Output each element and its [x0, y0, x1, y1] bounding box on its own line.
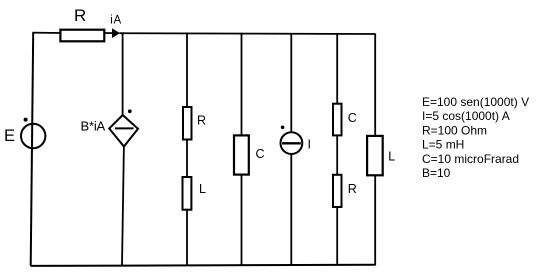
wire R-L branch top	[186, 33, 188, 108]
wire top-left segment	[33, 32, 61, 34]
inductor L2	[367, 136, 383, 175]
svg-text:L: L	[388, 150, 395, 164]
svg-text:I=5 cos(1000t) A: I=5 cos(1000t) A	[422, 109, 510, 123]
wire I branch bottom	[290, 154, 292, 265]
svg-text:R: R	[197, 114, 206, 128]
current arrow iA	[112, 28, 120, 38]
svg-text:R=100 Ohm: R=100 Ohm	[422, 123, 487, 137]
wire C2 to R3	[336, 135, 338, 176]
svg-text:E=100 sen(1000t) V: E=100 sen(1000t) V	[422, 95, 529, 109]
wire R-L branch bottom	[186, 210, 188, 266]
resistor R2	[183, 107, 192, 140]
svg-text:R: R	[348, 182, 357, 196]
svg-text:E: E	[4, 127, 15, 145]
svg-text:L: L	[199, 182, 206, 196]
wire bottom	[31, 265, 376, 266]
wire R2 to L1	[186, 140, 188, 178]
svg-text:R: R	[74, 6, 86, 25]
wire C-R branch top	[336, 33, 338, 104]
wire B*iA branch top	[122, 33, 124, 116]
wire left vertical	[31, 32, 34, 265]
wire top main segment	[120, 32, 376, 35]
inductor L1	[183, 177, 192, 210]
wire C branch top	[241, 33, 243, 136]
svg-text:I: I	[308, 138, 311, 152]
svg-text:C: C	[256, 147, 265, 161]
capacitor C1	[234, 135, 249, 174]
wire right vertical top	[374, 34, 376, 137]
resistor R1 (top)	[60, 30, 104, 42]
svg-text:L=5 mH: L=5 mH	[422, 138, 464, 152]
svg-text:iA: iA	[110, 15, 121, 27]
wire B*iA branch bottom	[122, 146, 124, 266]
current source I	[281, 126, 303, 155]
wire right vertical bottom	[374, 175, 376, 265]
svg-text:C=10 microFrarad: C=10 microFrarad	[422, 152, 519, 166]
svg-text:C: C	[348, 111, 357, 125]
voltage source E	[21, 118, 45, 149]
wire I branch top	[290, 33, 292, 133]
wire resistor to arrow	[105, 32, 113, 34]
svg-text:B=10: B=10	[422, 166, 451, 180]
dependent source B*iA	[109, 109, 138, 146]
wire C branch bottom	[241, 175, 243, 266]
resistor R3	[333, 175, 342, 207]
svg-text:B*iA: B*iA	[81, 118, 106, 133]
wire C-R branch bottom	[336, 207, 338, 266]
capacitor C2	[333, 104, 342, 136]
